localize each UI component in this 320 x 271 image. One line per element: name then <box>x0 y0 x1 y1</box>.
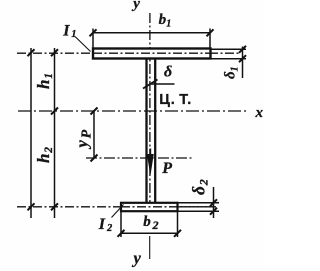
I1 leader line <box>75 37 91 52</box>
b2 tick left <box>118 230 125 237</box>
yP tick bottom <box>91 155 98 162</box>
bottom flange axis (dash-dot horizontal through bottom flange) <box>17 206 216 208</box>
line through point P (dash-dot) <box>86 157 193 159</box>
delta1 tick top <box>239 46 246 53</box>
label delta1 (rotated) <box>223 67 241 80</box>
svg-text:1: 1 <box>71 29 76 40</box>
delta2 dimension line <box>213 187 215 218</box>
svg-text:h: h <box>34 154 53 163</box>
b2 tick right <box>174 230 181 237</box>
b2 extension line left <box>120 212 122 238</box>
force P arrow shaft <box>149 149 151 159</box>
h1/h2 dimension line (inner, left) <box>54 48 56 218</box>
svg-text:Ц. Т.: Ц. Т. <box>159 92 192 108</box>
delta1 tick bottom <box>239 55 246 62</box>
svg-text:2: 2 <box>43 147 55 154</box>
svg-text:I: I <box>62 22 70 39</box>
svg-text:y: y <box>131 0 140 12</box>
tick inner bottom <box>51 203 58 210</box>
y axis (vertical centerline, top segment through web) <box>149 13 151 211</box>
svg-text:x: x <box>255 105 264 121</box>
b1 extension line right <box>209 29 211 50</box>
svg-text:1: 1 <box>229 67 240 72</box>
tick outer top <box>28 49 35 56</box>
force P arrowhead <box>147 154 154 176</box>
b1 dimension line <box>93 32 210 34</box>
b2 dimension line <box>121 232 178 234</box>
label delta2 (rotated) <box>189 179 211 195</box>
delta2 tick top <box>210 199 217 206</box>
delta2 extension: flange bottom edge extended right <box>178 210 220 212</box>
label h2 (rotated) <box>34 147 55 163</box>
delta2 tick bottom <box>210 208 217 215</box>
b1 extension line left <box>92 29 94 49</box>
svg-text:P: P <box>161 160 172 177</box>
yP tick top <box>91 108 98 115</box>
tick outer bottom <box>28 203 35 210</box>
svg-text:2: 2 <box>106 223 113 234</box>
b1 tick right <box>207 29 214 36</box>
svg-text:δ: δ <box>189 186 209 195</box>
svg-text:h: h <box>34 80 53 89</box>
delta2 extension: flange top edge extended right <box>178 202 220 204</box>
svg-text:b: b <box>143 214 151 230</box>
svg-text:2: 2 <box>152 218 159 232</box>
delta dimension line <box>151 83 175 85</box>
label h1 (rotated) <box>34 73 55 89</box>
svg-text:P: P <box>79 129 94 138</box>
label yP (rotated) <box>73 129 95 149</box>
I2 leader line <box>112 205 124 218</box>
svg-text:1: 1 <box>43 73 55 79</box>
delta1 extension: flange top edge extended right <box>211 48 246 50</box>
svg-text:δ: δ <box>164 64 172 81</box>
top flange axis (dash-dot horizontal through top flange) <box>17 52 240 54</box>
tick inner middle (x axis) <box>51 108 58 115</box>
x axis <box>18 110 248 112</box>
y axis bottom segment <box>149 236 151 259</box>
delta1 dimension line <box>242 47 244 79</box>
h total dimension line (outer, left) <box>30 48 32 218</box>
b2 extension line right <box>177 212 179 238</box>
web right edge <box>154 59 156 204</box>
svg-text:y: y <box>73 140 92 150</box>
bottom flange outline <box>121 203 178 211</box>
delta1 extension: flange bottom edge extended right <box>211 58 246 60</box>
svg-text:y: y <box>132 249 142 268</box>
bottom flange axis inside <box>121 206 216 208</box>
web left edge <box>145 59 147 204</box>
top flange outline <box>93 49 211 59</box>
yP dimension line <box>93 111 95 158</box>
tick inner top <box>51 49 58 56</box>
top flange axis visible inside flange <box>93 52 211 54</box>
svg-text:I: I <box>98 216 106 233</box>
b1 tick left <box>90 29 97 36</box>
svg-text:1: 1 <box>166 19 171 30</box>
delta dimension slash across web <box>143 80 158 89</box>
svg-text:2: 2 <box>197 179 211 186</box>
